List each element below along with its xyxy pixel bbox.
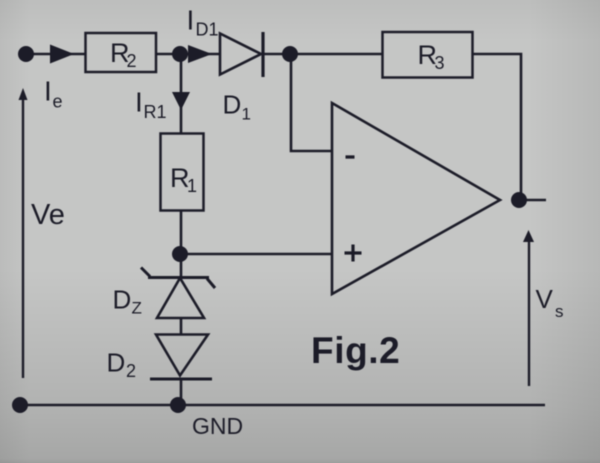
svg-text:Z: Z xyxy=(132,299,142,318)
svg-text:V: V xyxy=(536,284,554,314)
svg-text:3: 3 xyxy=(435,53,445,73)
svg-text:s: s xyxy=(555,302,564,321)
svg-text:1: 1 xyxy=(242,105,251,124)
svg-text:R1: R1 xyxy=(144,102,167,122)
svg-text:D1: D1 xyxy=(196,20,219,40)
svg-text:I: I xyxy=(44,76,52,107)
svg-text:2: 2 xyxy=(126,361,136,381)
svg-text:2: 2 xyxy=(127,51,137,71)
svg-text:GND: GND xyxy=(192,413,243,439)
svg-text:Ve: Ve xyxy=(31,199,65,231)
svg-text:D: D xyxy=(223,90,242,120)
svg-text:I: I xyxy=(135,87,143,118)
svg-text:D: D xyxy=(107,348,126,378)
svg-text:I: I xyxy=(187,5,195,36)
svg-text:1: 1 xyxy=(187,176,197,196)
svg-text:D: D xyxy=(113,285,132,315)
svg-text:Fig.2: Fig.2 xyxy=(311,330,400,371)
svg-text:e: e xyxy=(53,92,63,112)
